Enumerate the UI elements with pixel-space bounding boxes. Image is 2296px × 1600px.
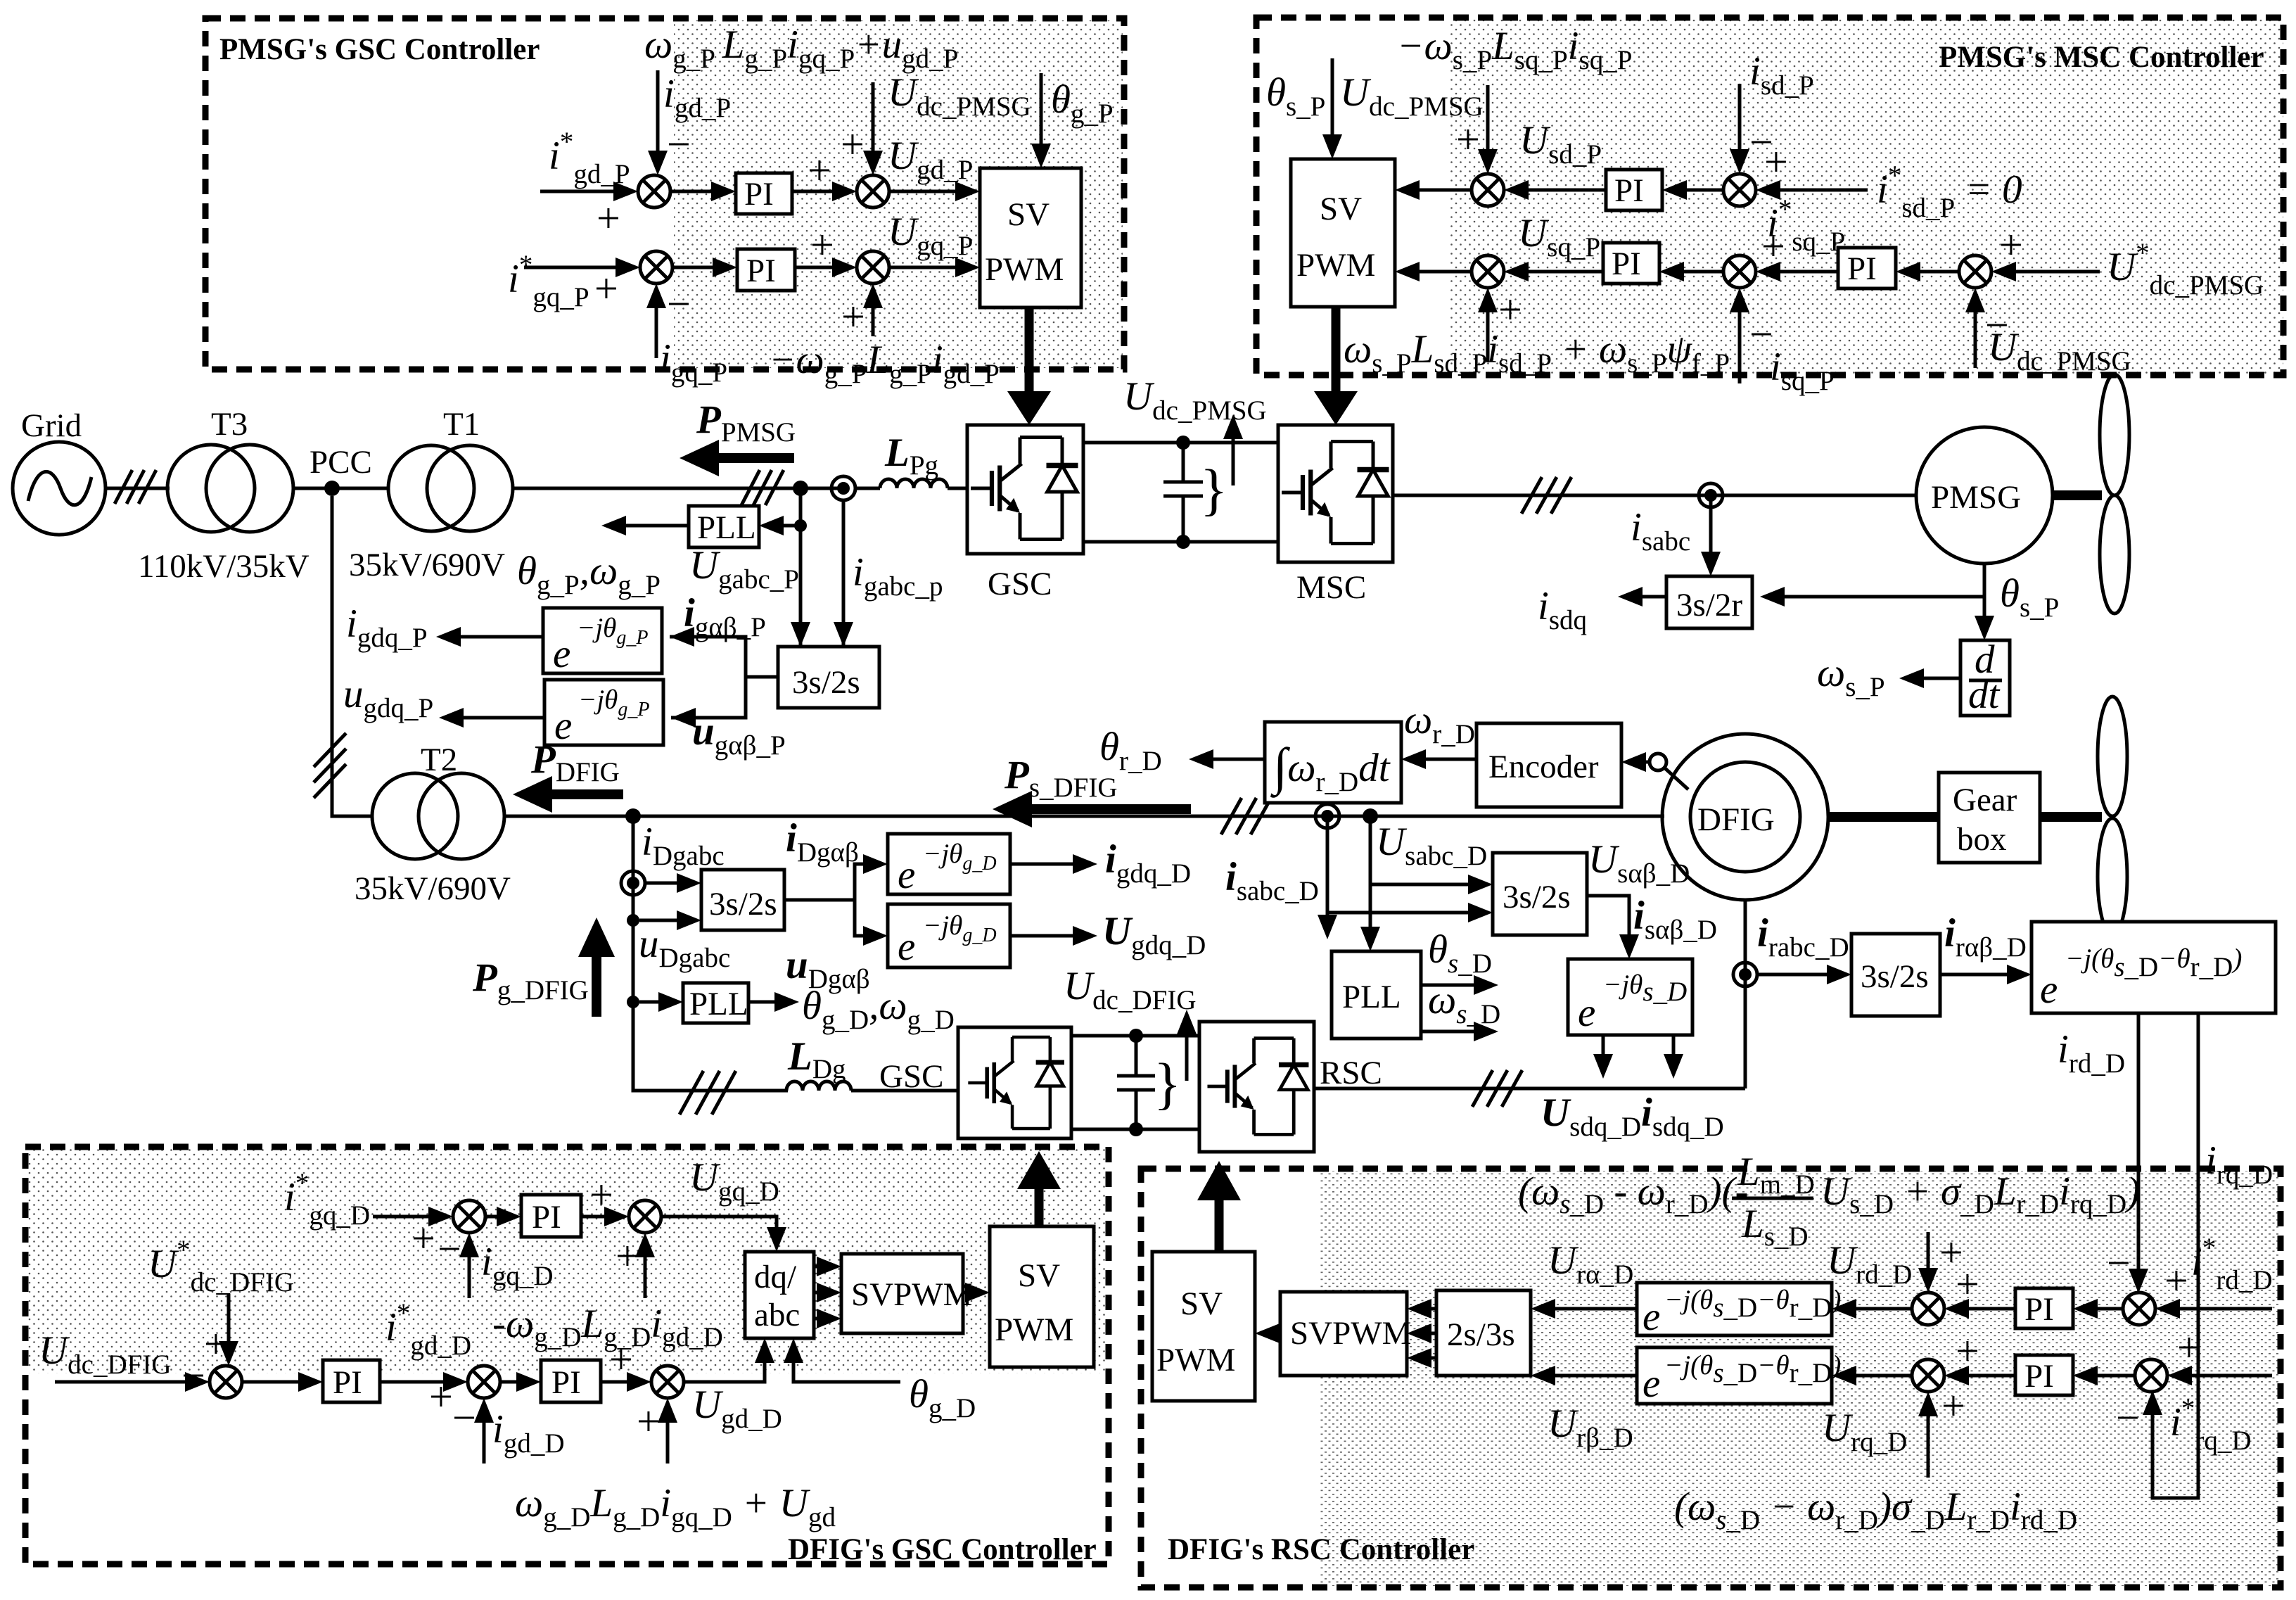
P_s_DFIG power flow arrow: [993, 753, 1191, 827]
svg-text:T2: T2: [421, 742, 457, 778]
svg-text:PI: PI: [1847, 250, 1877, 287]
PMSG MSC controller shaded region: [1449, 20, 2283, 374]
svg-text:abc: abc: [754, 1297, 800, 1333]
PMSG GSC controller title: [219, 33, 540, 66]
svg-text:+: +: [1956, 1261, 1979, 1307]
wire up into G2: [616, 1233, 655, 1298]
wire SVPWM2 to SV PWM: [1255, 1323, 1280, 1343]
svg-text:+: +: [412, 1215, 435, 1262]
node tap i_Dgabc: [621, 820, 725, 895]
wire to U_gdq_D: [1010, 909, 1206, 960]
svg-text:+: +: [808, 147, 831, 193]
svg-text:MSC: MSC: [1296, 569, 1366, 606]
block dq/abc: [745, 1252, 814, 1338]
node i*_gq_P input label: [508, 250, 589, 312]
block integrator: [1265, 722, 1401, 803]
label U_rd_D: [1827, 1238, 1912, 1290]
PI controller R-PI1: [2015, 1288, 2073, 1328]
SV PWM block (PMSG GSC): [980, 168, 1081, 307]
label U_sdq_D i_sdq_D: [1541, 1091, 1724, 1142]
node current tap T_P: [831, 476, 855, 500]
wire up into F3: [637, 1398, 677, 1464]
block 3s/2s (DFIG grid): [701, 870, 784, 930]
svg-text:−: −: [452, 1395, 476, 1441]
wire R4 to PI9: [2073, 1366, 2135, 1385]
wire S1 to PI1: [670, 182, 736, 201]
svg-text:PWM: PWM: [985, 251, 1064, 288]
svg-text:PI: PI: [1612, 246, 1641, 282]
DFIG GSC controller title: [788, 1533, 1097, 1566]
svg-text:3s/2s: 3s/2s: [1503, 879, 1571, 915]
wire i_sabc down to 3s2r: [1631, 495, 1721, 576]
label U_sab_D: [1588, 837, 1690, 889]
wire G2 to dq/abc with U_gq_D: [661, 1155, 786, 1252]
svg-text:GSC: GSC: [879, 1058, 943, 1095]
node stator tap circled: [1315, 804, 1339, 828]
summing junction R2: [2123, 1293, 2155, 1325]
svg-text:+: +: [841, 293, 865, 340]
svg-text:3s/2s: 3s/2s: [1861, 958, 1929, 995]
block e^-jtheta_g_P lower: [544, 680, 663, 748]
svg-text:e: e: [553, 632, 570, 676]
wire integrator to theta_r_D: [1099, 725, 1265, 776]
wire F2 to PI7: [500, 1372, 541, 1392]
block e^-jtheta_s_D: [1568, 959, 1692, 1035]
converter GSC (DFIG): [879, 1027, 1071, 1138]
summing junction R3: [1912, 1359, 1944, 1392]
svg-text:T3: T3: [211, 406, 248, 443]
summing junction M5: [1959, 255, 1991, 288]
wire J2 down to GSC ac side: [633, 816, 788, 1091]
block SVPWM (DFIG RSC): [1280, 1292, 1411, 1376]
svg-text:+: +: [1764, 139, 1788, 185]
wire 3s2s rotor to e-box: [1940, 911, 2032, 984]
svg-text:SV: SV: [1018, 1257, 1060, 1294]
svg-text:(ωs_D - ωr_D)(-: (ωs_D - ωr_D)(-: [1518, 1169, 1748, 1219]
block Gear box: [1939, 773, 2040, 863]
summing junction F3: [651, 1366, 684, 1398]
wires U_sdq i_sdq down from e-box: [1593, 1035, 1683, 1079]
block 2s/3s: [1436, 1290, 1531, 1376]
svg-text:PMSG: PMSG: [1931, 479, 2021, 516]
svg-text:PI: PI: [746, 253, 776, 289]
wire MSC to PMSG with phase marks: [1393, 477, 1917, 514]
svg-text:PI: PI: [744, 176, 774, 212]
wire 3s2r to i_sdq: [1538, 584, 1666, 635]
wire PI2 to sum S4: [795, 222, 857, 277]
node PLL tap: [627, 996, 639, 1008]
label u_Dgab: [786, 943, 870, 994]
wire Encoder to integrator w_r_D: [1401, 698, 1477, 769]
svg-text:PLL: PLL: [697, 509, 756, 546]
wire DFIG DC link top: [1071, 1034, 1199, 1038]
svg-text:110kV/35kV: 110kV/35kV: [138, 548, 310, 585]
wire formula up into R3: [1918, 1383, 1965, 1478]
formula rsc feedforward d-axis: [1518, 1150, 2140, 1252]
wire i_gq_D up into G1: [438, 1226, 554, 1298]
PI controller PI2: [737, 249, 795, 291]
wire theta_s_P and U_dc into SV PWM top: [1266, 58, 1484, 159]
node stator current tap: [1699, 483, 1723, 507]
wire U*_dc_PMSG into M5: [1991, 222, 2264, 300]
wire feedforward u_gd vertical into S2: [841, 82, 883, 175]
wire U_dc_DFIG to F1: [55, 1372, 210, 1392]
thick gate signal arrow SV PWM to MSC: [1314, 307, 1358, 425]
block e^-j(ts-tr) lower: [1637, 1347, 1841, 1406]
wires dq/abc to SVPWM: [814, 1257, 841, 1328]
PI controller G-PI1: [521, 1195, 581, 1237]
grid source G1: [13, 407, 106, 535]
wire sum M4 to PI4: [1659, 223, 1785, 281]
node PCC: [310, 444, 372, 496]
svg-text:e: e: [1643, 1295, 1660, 1339]
wire PI8 to R1: [1944, 1261, 2015, 1319]
svg-text:dq/: dq/: [754, 1259, 797, 1295]
shaft gearbox to blades: [2040, 812, 2102, 822]
wire ebox2 to 2s/3s with U_rb_D: [1531, 1366, 1637, 1453]
PI controller PI3: [1606, 170, 1662, 210]
svg-text:e: e: [1578, 991, 1595, 1035]
summing junction S4: [857, 251, 889, 284]
DFIG GSC controller dashed box: [25, 1147, 1109, 1564]
DFIG GSC controller shaded region: [27, 1148, 1107, 1373]
summing junction R1: [1912, 1293, 1944, 1325]
P_PMSG power flow arrow: [680, 398, 796, 476]
PMSG GSC controller shaded region: [674, 20, 1123, 368]
svg-text:+: +: [1999, 222, 2023, 268]
wire i_sabc_D down: [1225, 816, 1337, 939]
shaft DFIG to gearbox: [1828, 812, 1939, 822]
wire i_gq_P vertical into S3: [646, 281, 727, 388]
formula rsc feedforward q-axis: [1674, 1485, 2077, 1535]
U_dc_PMSG measurement arrow: [1123, 374, 1267, 521]
svg-text:+: +: [810, 222, 834, 268]
PI controller R-PI2: [2015, 1355, 2073, 1395]
svg-text:SV: SV: [1320, 191, 1362, 227]
svg-text:35kV/690V: 35kV/690V: [355, 870, 511, 907]
wire sum M1 to SV PWM: [1395, 180, 1472, 200]
wire tap down to 3s2s: [834, 500, 943, 647]
svg-text:+: +: [1498, 286, 1522, 333]
PI controller PI5: [1838, 248, 1896, 288]
formula -wsP LsqP isqP: [1397, 24, 1632, 75]
svg-text:3s/2s: 3s/2s: [792, 664, 860, 701]
wire PI5 to M4: [1756, 262, 1838, 281]
summing junction G2: [629, 1200, 661, 1233]
node i*_gd_P input label: [549, 127, 630, 189]
node tap u_Dgabc: [627, 914, 730, 973]
wire 3s2s output branch: [670, 627, 778, 728]
summing junction F2: [468, 1366, 500, 1398]
block 3s/2r: [1666, 576, 1752, 628]
wire S2 to SVPWM row1 U_gd_P: [888, 134, 980, 201]
label i_Dgab: [786, 816, 859, 868]
wire theta_s_P from PMSG down to d/dt: [1975, 564, 2059, 640]
PMSG GSC controller dashed box: [205, 18, 1124, 369]
label U_dc_DFIG input: [39, 1328, 205, 1399]
label i*_sq_P: [1767, 194, 1845, 257]
formula wsP LsdP isdP + wsP psi_fP: [1344, 327, 1730, 379]
wire PI1 to sum S2: [792, 147, 857, 201]
wire i*_gq_D to sum G1: [373, 1207, 453, 1262]
svg-text:box: box: [1957, 821, 2007, 858]
wire 3s2s DFIG output branch: [784, 854, 888, 946]
block e^-jtheta_g_D lower: [888, 904, 1010, 969]
label U_rq_D: [1822, 1406, 1907, 1457]
wire G1 to PI5: [485, 1207, 521, 1226]
svg-text:PI: PI: [333, 1364, 362, 1401]
svg-text:DFIG's GSC Controller: DFIG's GSC Controller: [788, 1533, 1097, 1566]
svg-text:PWM: PWM: [995, 1312, 1073, 1348]
inductor L_Pg: [855, 431, 967, 488]
phase marks on GSC ac wire: [680, 1071, 736, 1115]
node junction J2 on bus: [625, 808, 641, 824]
svg-text:+: +: [204, 1321, 228, 1367]
wire F1 to PI6: [242, 1372, 323, 1392]
block e^-j(ts-tr) upper: [1637, 1283, 1841, 1339]
summing junction F1: [210, 1366, 242, 1398]
summing junction G1: [453, 1200, 485, 1233]
machine PMSG: [1916, 427, 2053, 564]
wire i*_rq_D into R4: [2116, 1324, 2272, 1456]
svg-text:−: −: [2107, 1240, 2131, 1286]
node junction J1: [793, 481, 808, 496]
svg-text:SV: SV: [1007, 196, 1050, 233]
wire rotor tap to 3s/2s rotor: [1757, 911, 1851, 984]
summing junction S1: [638, 175, 670, 208]
svg-text:e: e: [1643, 1361, 1660, 1406]
svg-text:−: −: [2116, 1395, 2140, 1441]
feedforward formula wgP LgP igqP + ugdP: [644, 23, 958, 74]
inductor L_Dg: [736, 1034, 958, 1091]
transformer T2: [355, 742, 511, 907]
svg-text:+: +: [616, 1233, 639, 1279]
wire feedforward vertical into M1 with U_sd_P: [1456, 85, 1602, 174]
svg-text:Gear: Gear: [1953, 782, 2017, 818]
svg-text:+: +: [637, 1398, 661, 1445]
svg-text:PLL: PLL: [689, 986, 748, 1022]
svg-text:−: −: [438, 1226, 461, 1272]
phase marks on DFIG bus: [1221, 798, 1271, 834]
wire PLL output theta omega: [517, 516, 689, 600]
wire S4 to SVPWM row2 U_gq_P: [888, 210, 980, 277]
wire sum M2 to PI3: [1662, 180, 1723, 200]
label U_dc_PMSG near theta arrow: [888, 70, 1031, 122]
wire PCC down to T2 with phase marks: [314, 496, 372, 816]
wire i_rq_D feedback down right side: [2143, 1013, 2273, 1498]
wire ebox2 from R3: [1832, 1366, 1912, 1385]
wire PCC junction down to PLL tap: [791, 488, 810, 647]
thick gate arrow SV PWM up to GSC: [1017, 1151, 1061, 1226]
block PLL (DFIG grid): [639, 983, 748, 1023]
wire taps into 3s/2s DFIG: [639, 873, 701, 930]
svg-text:PCC: PCC: [310, 444, 372, 481]
wire PI9 to R3: [1944, 1328, 2015, 1385]
wire to i_gdq_D: [1010, 837, 1191, 889]
wire T2 to DFIG stator bus: [504, 815, 1664, 818]
thick gate arrow SV PWM up to RSC: [1197, 1161, 1241, 1252]
label i_gab_P: [684, 591, 766, 642]
wire i_sd_P vertical into M2: [1730, 49, 1814, 174]
svg-text:−: −: [667, 121, 691, 167]
svg-text:PI: PI: [2024, 1291, 2054, 1328]
svg-text:PI: PI: [551, 1364, 581, 1401]
svg-text:PWM: PWM: [1296, 247, 1375, 284]
converter MSC: [1278, 425, 1393, 606]
wire T1 to GSC junction with phase marks: [513, 470, 843, 505]
wire i*_sd_P=0 into M2: [1756, 139, 2022, 223]
block Encoder: [1477, 723, 1650, 807]
formula w_gD L_gD i_gq_D + U_gd: [515, 1481, 836, 1532]
block e^-jtheta_g_D upper: [888, 834, 1010, 897]
wire SVPWM to SV PWM: [963, 1283, 990, 1302]
svg-text:dt: dt: [1968, 673, 2001, 717]
summing junction M1: [1472, 174, 1504, 206]
wire R1 to ebox1: [1832, 1299, 1912, 1319]
wire i_gd_P vertical into S1: [648, 70, 731, 175]
transformer T1: [349, 406, 513, 583]
svg-text:e: e: [2040, 967, 2058, 1012]
svg-text:SVPWM: SVPWM: [851, 1276, 972, 1313]
wire PI6 to F2 with i*_gd_D: [380, 1298, 471, 1420]
converter GSC (PMSG): [967, 425, 1083, 602]
svg-text:2s/3s: 2s/3s: [1447, 1316, 1515, 1353]
wind turbine blades PMSG: [2100, 374, 2129, 614]
wire PI to sum G2: [581, 1172, 629, 1226]
svg-text:e: e: [898, 925, 915, 969]
svg-text:RSC: RSC: [1320, 1055, 1382, 1091]
block 3s/2s (DFIG stator): [1493, 853, 1587, 935]
wire theta_g_D into dq/abc: [784, 1338, 976, 1423]
svg-text:PI: PI: [2024, 1358, 2054, 1395]
wire d/dt to w_s_P: [1817, 651, 1960, 702]
wire T3 to PCC: [293, 487, 340, 490]
label U*_dc_DFIG: [148, 1235, 294, 1297]
wire grid to T3 with phase marks: [106, 470, 170, 504]
wire PI4 to M3 with U_sq_P: [1504, 211, 1603, 281]
wire U_sabc_D down to PLL: [1360, 816, 1487, 951]
transformer T3: [138, 406, 310, 585]
wire i_gd_D up into F2: [452, 1395, 565, 1464]
svg-text:PI: PI: [532, 1199, 561, 1236]
svg-text:+: +: [1956, 1328, 1979, 1374]
wind turbine blades DFIG: [2098, 697, 2127, 935]
wire U*_dc_DFIG down into F1: [204, 1294, 238, 1367]
svg-text:}: }: [1154, 1051, 1181, 1115]
svg-text:PMSG's GSC Controller: PMSG's GSC Controller: [219, 33, 540, 66]
wire to u_gdq_P: [343, 672, 544, 728]
block d/dt: [1960, 637, 2010, 717]
wire i*_gd_P to sum S1: [540, 182, 638, 241]
block e^-j(theta_s_D - theta_r_D) main: [2032, 922, 2276, 1013]
wire feedforward vertical into S4: [841, 284, 883, 340]
svg-text:+: +: [841, 121, 865, 167]
wire ebox1 to 2s/3s with U_ra_D: [1531, 1238, 1637, 1319]
svg-text:PMSG's MSC Controller: PMSG's MSC Controller: [1939, 41, 2264, 74]
block 3s/2s (PMSG): [778, 647, 879, 708]
PI controller PI4: [1603, 243, 1659, 284]
svg-text:SV: SV: [1180, 1285, 1223, 1322]
wire S3 to PI2: [672, 258, 737, 277]
svg-text:+: +: [429, 1373, 453, 1420]
feedforward formula -wgP LgP igdP: [769, 338, 1000, 389]
wire sum M5 to PI5: [1896, 262, 1959, 281]
wire PI3 to M1: [1504, 180, 1606, 200]
svg-text:Encoder: Encoder: [1488, 749, 1599, 785]
wire PCC to T1: [332, 487, 389, 490]
summing junction M4: [1723, 255, 1756, 288]
wire feedforward up into M3: [1478, 286, 1522, 362]
wire i_rd_D down to RSC controller: [2058, 1013, 2148, 1293]
PI controller PI1: [736, 173, 792, 214]
wire R2 to PI8: [2073, 1299, 2123, 1319]
svg-text:e: e: [898, 853, 915, 897]
label U_gabc_P: [689, 543, 799, 595]
summing junction M3: [1472, 255, 1504, 288]
wire formula down into R1: [1918, 1229, 1963, 1293]
summing junction M2: [1723, 174, 1756, 206]
summing junction S3: [640, 251, 672, 284]
PMSG MSC controller title: [1939, 41, 2264, 74]
U_dc_DFIG measurement arrow: [1064, 964, 1197, 1115]
PI controller G-PI3: [541, 1360, 601, 1402]
svg-text:35kV/690V: 35kV/690V: [349, 547, 505, 583]
SV PWM block (DFIG RSC): [1152, 1252, 1255, 1401]
svg-text:PLL: PLL: [1342, 979, 1401, 1015]
svg-text:+: +: [594, 265, 618, 312]
wire 3s2s stator to e-jtheta_s: [1587, 894, 1717, 959]
wire branches into 3s/2s stator: [1327, 875, 1493, 922]
wire RSC to rotor with phase marks: [1314, 1070, 1745, 1107]
svg-text:PWM: PWM: [1156, 1342, 1235, 1378]
SV PWM block (DFIG GSC): [990, 1226, 1094, 1367]
svg-text:+: +: [2164, 1257, 2188, 1304]
svg-text:+: +: [597, 195, 620, 241]
wire theta_g_P into SV PWM top: [1031, 73, 1114, 168]
wire i*_rd_D into R2: [2107, 1233, 2273, 1319]
capacitor DC link PMSG: [1163, 436, 1203, 549]
P_g_DFIG power flow arrow: [472, 918, 615, 1017]
wire DFIG DC link bottom: [1071, 1128, 1199, 1131]
svg-text:−: −: [667, 281, 691, 327]
wire F3 to dq/abc with U_gd_D: [684, 1338, 782, 1434]
summing junction S2: [857, 175, 889, 208]
machine DFIG: [1662, 734, 1828, 900]
svg-text:e: e: [554, 704, 572, 748]
wire PI7 to F3: [601, 1336, 651, 1392]
svg-text:+: +: [589, 1172, 613, 1218]
node rotor tap: [1733, 963, 1757, 986]
wires 2s/3s to SVPWM2: [1407, 1299, 1436, 1368]
wire i*_gq_P to sum S3: [524, 258, 640, 312]
svg-text:3s/2r: 3s/2r: [1676, 587, 1742, 623]
DFIG RSC controller shaded region: [1320, 1171, 2278, 1586]
svg-text:GSC: GSC: [988, 566, 1052, 602]
svg-text:Grid: Grid: [21, 407, 82, 444]
block PLL (PMSG): [689, 506, 801, 547]
svg-text:DFIG's RSC Controller: DFIG's RSC Controller: [1168, 1533, 1474, 1566]
DFIG RSC controller title: [1168, 1533, 1474, 1566]
svg-text:+: +: [1941, 1383, 1965, 1429]
node stator tap dot: [1363, 808, 1378, 824]
svg-text:}: }: [1200, 457, 1227, 521]
block 3s/2s (DFIG rotor): [1851, 934, 1940, 1016]
formula -w_gD L_gD i_gd_D: [492, 1302, 723, 1352]
svg-text:3s/2s: 3s/2s: [709, 886, 777, 922]
PI controller G-PI2: [323, 1360, 380, 1402]
block PLL (DFIG stator): [1332, 951, 1421, 1039]
label i*_gq_D: [284, 1168, 370, 1231]
